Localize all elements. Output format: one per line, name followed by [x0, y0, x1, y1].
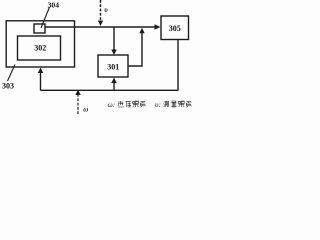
wire left vertical up into 303: [40, 72, 42, 91]
arrowhead up into main line at x=142: [139, 28, 144, 34]
svg-text:302: 302: [34, 43, 46, 52]
wire branch up to 301 bottom: [113, 82, 115, 91]
svg-text:ω: ω: [83, 106, 88, 114]
legend CJK glyphs "process noise": [118, 101, 146, 107]
arrowhead into 305: [155, 24, 161, 29]
arrowhead up into 301 bottom: [111, 78, 116, 84]
svg-text:υ: υ: [104, 6, 108, 14]
arrowhead down into 301 top: [111, 50, 116, 56]
dashed noise input v (top): [100, 0, 102, 21]
block 302: [18, 36, 61, 60]
wire 301 right to main line: [128, 32, 142, 66]
arrowhead of dashed v noise: [98, 21, 103, 27]
wire branch down to 301 top: [113, 27, 115, 50]
wire main horizontal from 304 to 305: [45, 26, 156, 28]
svg-text:301: 301: [107, 63, 119, 72]
block 303 outer rectangle: [6, 21, 74, 67]
legend CJK glyphs "measurement noise": [164, 101, 192, 107]
block 305: [161, 16, 189, 40]
wire 305 bottom down: [177, 40, 179, 91]
wire feedback bottom horizontal: [41, 89, 179, 91]
svg-text:ω:: ω:: [108, 100, 116, 109]
arrowhead of dashed w noise: [75, 90, 80, 96]
arrowhead up into 303 bottom: [38, 68, 43, 74]
svg-text:304: 304: [48, 0, 60, 9]
leader line for label 303: [8, 65, 16, 82]
svg-text:303: 303: [2, 82, 14, 91]
block 301: [98, 55, 128, 77]
leader line for label 304: [41, 7, 50, 28]
block 304 small box: [34, 24, 45, 33]
dashed noise input w (bottom): [77, 95, 79, 115]
svg-text:υ:: υ:: [155, 100, 161, 109]
svg-text:305: 305: [169, 24, 181, 33]
